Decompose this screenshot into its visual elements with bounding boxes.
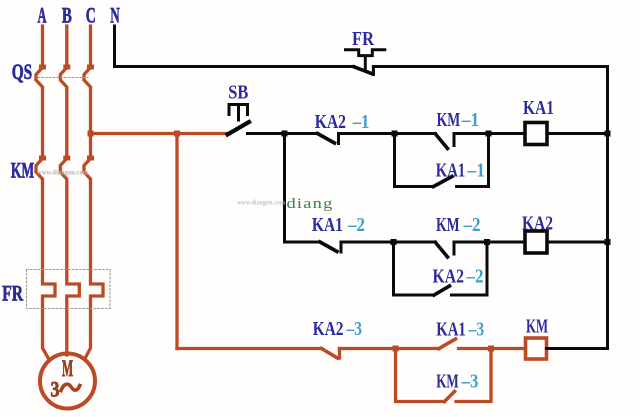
- contact KA1-3 blade: [439, 339, 456, 349]
- coil KA1: [525, 123, 547, 145]
- branch KA1-1 loop: [395, 134, 489, 187]
- svg-text:–1: –1: [352, 111, 370, 133]
- motor circle M: [40, 354, 95, 409]
- svg-text:SB: SB: [228, 82, 248, 104]
- junction dot rung2 branch left: [391, 239, 397, 245]
- SB blade: [228, 122, 250, 135]
- svg-text:www.diangon.com: www.diangon.com: [237, 199, 285, 207]
- rung1 wire KM-1 to coil KA1: [454, 132, 525, 135]
- motor tilde: [61, 384, 80, 390]
- contact KM-1 blade: [436, 134, 448, 149]
- junction dot bottom branch right: [488, 346, 494, 352]
- svg-text:B: B: [62, 2, 72, 27]
- svg-text:–2: –2: [466, 265, 484, 287]
- svg-text:–2: –2: [463, 214, 481, 236]
- svg-text:–1: –1: [467, 159, 485, 181]
- N wire down and across to FR contact: [115, 26, 355, 67]
- FR NC contact blade: [354, 67, 373, 74]
- junction dot right rail rung1: [605, 131, 611, 137]
- bottom rung orange wire to KA2-3: [177, 347, 322, 350]
- svg-text:KA2: KA2: [313, 318, 344, 340]
- svg-text:KM: KM: [526, 316, 548, 338]
- svg-text:FR: FR: [2, 281, 24, 306]
- junction dot rung1 branch right: [486, 131, 492, 137]
- svg-text:QS: QS: [12, 59, 33, 84]
- contact KA2-3 tick: [338, 349, 341, 359]
- rung2 wire KA1-2 to KM-2: [341, 241, 436, 244]
- junction dot rung1 left branch: [282, 131, 288, 137]
- rung1 wire coil KA1 to right rail: [547, 132, 608, 135]
- contact KA1-1 blade: [434, 177, 453, 187]
- svg-text:KA2: KA2: [522, 212, 553, 234]
- left drop wire rung1 to rung2: [285, 134, 321, 243]
- contact KA2-1 blade: [318, 134, 335, 144]
- wire phase C with QS blade, KM blade, FR heater: [84, 26, 103, 359]
- svg-text:KM: KM: [11, 158, 34, 183]
- junction dot rung1 branch left: [392, 131, 398, 137]
- svg-text:–2: –2: [347, 214, 365, 236]
- svg-text:KM: KM: [437, 109, 461, 131]
- rung2 wire coil KA2 to right rail: [547, 241, 608, 244]
- bottom rung black wire coil KM to right rail: [547, 347, 608, 350]
- contact KA1-2 tick: [340, 242, 343, 252]
- contact KM-2 blade: [436, 243, 448, 258]
- rung 1 wire SB to KA2-1: [248, 132, 318, 135]
- svg-text:KM: KM: [436, 214, 460, 236]
- junction dot at phase C tap: [88, 131, 94, 137]
- QS terminal dots: [39, 65, 46, 70]
- svg-text:A: A: [38, 2, 47, 27]
- wire phase A with QS blade, KM blade, FR heater: [36, 26, 55, 359]
- svg-text:www.diangon.com: www.diangon.com: [37, 169, 88, 177]
- top wire from FR to right rail, right rail down: [373, 67, 607, 349]
- svg-text:KA2: KA2: [433, 265, 465, 287]
- svg-text:KA1: KA1: [436, 319, 466, 341]
- junction dot feed split: [174, 131, 180, 137]
- FR trip symbol: [346, 50, 385, 70]
- contact KA2-1 tick: [337, 134, 340, 144]
- coil KM: [526, 338, 547, 359]
- bottom rung wire KA1-3 to coil KM: [459, 347, 526, 350]
- contact KM-1 hook: [453, 134, 456, 146]
- contact KA1-2 blade: [320, 242, 337, 252]
- svg-text:diang: diang: [287, 196, 334, 212]
- rung1 wire KA2-1 to KM-1: [339, 132, 436, 135]
- branch KM-3 loop: [396, 349, 492, 402]
- bottom rung wire KA2-3 to KA1-3: [340, 347, 440, 350]
- QS mechanical link (dashed): [38, 77, 88, 79]
- branch KA2-2 loop: [394, 242, 488, 295]
- FR NC contact hook: [372, 67, 375, 75]
- svg-text:–3: –3: [461, 371, 479, 393]
- wire phase B with QS blade, KM blade, FR heater: [60, 26, 79, 355]
- contact KA2-2 blade: [434, 286, 450, 295]
- contact KA2-3 blade: [322, 349, 338, 359]
- svg-text:KA1: KA1: [523, 97, 554, 119]
- svg-text:KA1: KA1: [312, 214, 343, 236]
- svg-text:FR: FR: [352, 28, 374, 50]
- contact KM-3 blade: [445, 392, 455, 402]
- svg-text:–3: –3: [468, 319, 484, 341]
- svg-text:–3: –3: [346, 318, 362, 340]
- junction dot right rail rung2: [605, 239, 611, 245]
- orange feed wire from phase C to SB: [91, 132, 231, 135]
- svg-text:C: C: [86, 2, 96, 27]
- junction dot bottom branch left: [393, 346, 399, 352]
- orange vertical wire to bottom rung: [175, 134, 178, 349]
- svg-text:M: M: [62, 356, 73, 381]
- coil KA2: [525, 231, 547, 253]
- svg-text:KM: KM: [436, 371, 459, 393]
- svg-text:N: N: [110, 2, 120, 27]
- svg-text:–1: –1: [461, 109, 479, 131]
- SB button cap: [229, 105, 248, 121]
- junction dot rung2 branch right: [484, 239, 490, 245]
- contact KM-2 hook: [453, 242, 456, 254]
- svg-text:KA1: KA1: [436, 159, 466, 181]
- KM main contact dots: [39, 156, 46, 161]
- rung2 wire KM-2 to coil KA2: [454, 241, 525, 244]
- FR thermal relay dotted box: [27, 270, 111, 309]
- svg-text:KA2: KA2: [315, 111, 346, 133]
- svg-text:3: 3: [51, 377, 60, 402]
